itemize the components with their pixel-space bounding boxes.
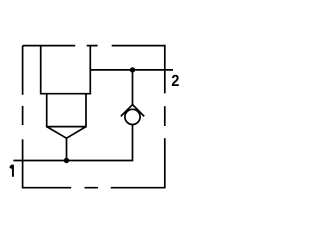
junction dot at node 1 xyxy=(64,158,69,163)
wire: nose cone tip to node at port 1 xyxy=(66,138,68,160)
cavity envelope (dashed boundary), bottom edge xyxy=(23,187,166,189)
wire: port 1 line xyxy=(13,160,132,162)
wire: check valve lower branch xyxy=(132,125,134,162)
cartridge valve body, upper rectangle xyxy=(41,46,91,94)
junction dot at node 2 xyxy=(130,67,135,72)
check valve ball xyxy=(125,109,140,124)
cavity envelope (dashed boundary), left edge xyxy=(22,46,24,189)
cavity envelope (dashed boundary), right edge xyxy=(164,45,166,188)
port label 2 xyxy=(172,75,179,86)
wire: port 2 line xyxy=(90,69,173,71)
port label 1 xyxy=(10,165,14,177)
cartridge valve nose cone xyxy=(47,127,86,139)
check valve seat xyxy=(121,105,144,117)
cavity envelope (dashed boundary), top edge xyxy=(23,45,165,47)
cartridge valve body, lower rectangle xyxy=(47,94,86,127)
wire: check valve upper branch xyxy=(132,70,134,106)
